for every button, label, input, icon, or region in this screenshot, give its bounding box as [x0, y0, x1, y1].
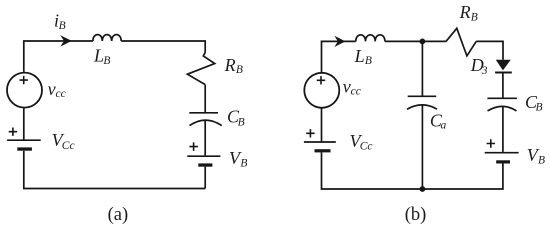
battery V_Cc (a) with polarity +: [7, 128, 41, 151]
label V_B (a): [229, 148, 247, 169]
svg-text:3: 3: [481, 65, 488, 77]
inductor L_B (b): [356, 35, 385, 42]
label R_B (b): [459, 2, 478, 23]
label C_B (b): [525, 92, 543, 114]
svg-text:B: B: [536, 102, 543, 114]
svg-text:v: v: [48, 79, 56, 99]
svg-text:B: B: [365, 55, 372, 67]
wire: battery V_Cc to bottom-left corner and bottom rail (a): [24, 151, 205, 189]
svg-text:Cc: Cc: [360, 141, 373, 153]
wire: v_cc to battery V_Cc (b): [321, 109, 323, 143]
svg-text:B: B: [103, 55, 110, 67]
label L_B (b): [354, 46, 372, 67]
wire: battery V_B to bottom-right corner (a): [204, 167, 206, 189]
svg-text:a: a: [441, 120, 447, 132]
svg-text:B: B: [240, 158, 247, 170]
label L_B (a): [93, 46, 110, 67]
svg-text:B: B: [238, 117, 245, 129]
label R_B (a): [224, 55, 243, 76]
wire: v_cc top terminal to top-left corner to inductor (circuit b): [322, 41, 356, 72]
wire: diode to capacitor C_B (b): [502, 74, 504, 99]
wire: v_cc top terminal to top-left corner to inductor (circuit a): [24, 41, 93, 72]
svg-text:Cc: Cc: [62, 140, 75, 152]
svg-text:cc: cc: [56, 88, 66, 100]
svg-text:cc: cc: [351, 86, 361, 98]
svg-text:(b): (b): [405, 205, 427, 225]
capacitor C_a (b): [407, 96, 437, 109]
wire: top node down to capacitor C_a (b): [421, 41, 423, 96]
label V_B (b): [527, 145, 545, 167]
svg-text:L: L: [93, 46, 104, 66]
resistor R_B (a): [187, 53, 214, 85]
label C_B (a): [227, 106, 245, 128]
label v_cc (b): [343, 77, 361, 98]
label V_Cc (b): [350, 131, 373, 153]
current arrow (b): [336, 37, 344, 45]
label C_a (b): [430, 111, 447, 132]
wire: resistor to top-right corner down to diode (b): [476, 41, 503, 59]
svg-text:B: B: [538, 155, 545, 167]
wire: capacitor C_B to battery V_B (b): [502, 106, 504, 152]
svg-text:(a): (a): [108, 205, 129, 225]
junction node at top (b): [420, 39, 426, 45]
wire: inductor to top-right corner down to resistor (a): [121, 41, 205, 53]
svg-text:B: B: [471, 12, 478, 24]
label V_Cc (a): [52, 130, 75, 152]
wire: battery V_B to bottom-right corner to node (b): [422, 164, 503, 190]
capacitor C_B (b): [487, 98, 517, 111]
wire: v_cc to battery V_Cc (a): [23, 108, 25, 140]
wire: node to resistor (b): [422, 40, 446, 42]
diode D_3: [495, 60, 512, 73]
battery V_B (b) with polarity +: [485, 139, 519, 163]
junction node at bottom (b): [420, 186, 426, 192]
svg-text:L: L: [354, 46, 365, 66]
label i_B: [54, 11, 66, 33]
svg-text:R: R: [224, 55, 236, 75]
inductor L_B (a): [93, 35, 121, 41]
voltage source v_cc (b): [304, 73, 339, 108]
capacitor C_B (a): [189, 113, 222, 126]
wire: resistor to capacitor (a): [204, 85, 206, 113]
battery V_Cc (b) with polarity +: [304, 129, 336, 152]
voltage source v_cc (a): [7, 73, 42, 108]
current arrow i_B: [62, 37, 71, 46]
svg-text:B: B: [236, 64, 243, 76]
wire: inductor to junction node (b): [385, 40, 423, 42]
resistor R_B (b): [446, 28, 476, 56]
label D_3 (b): [470, 55, 488, 77]
svg-text:R: R: [459, 2, 471, 22]
label v_cc (a): [48, 79, 66, 100]
wire: capacitor to battery V_B (a): [204, 120, 206, 155]
battery V_B (a) with polarity +: [187, 142, 220, 166]
wire: capacitor C_a to bottom node (b): [421, 105, 423, 189]
svg-text:v: v: [343, 77, 351, 97]
svg-text:B: B: [59, 20, 66, 32]
wire: battery V_Cc to bottom-left corner to node (b): [322, 152, 423, 189]
